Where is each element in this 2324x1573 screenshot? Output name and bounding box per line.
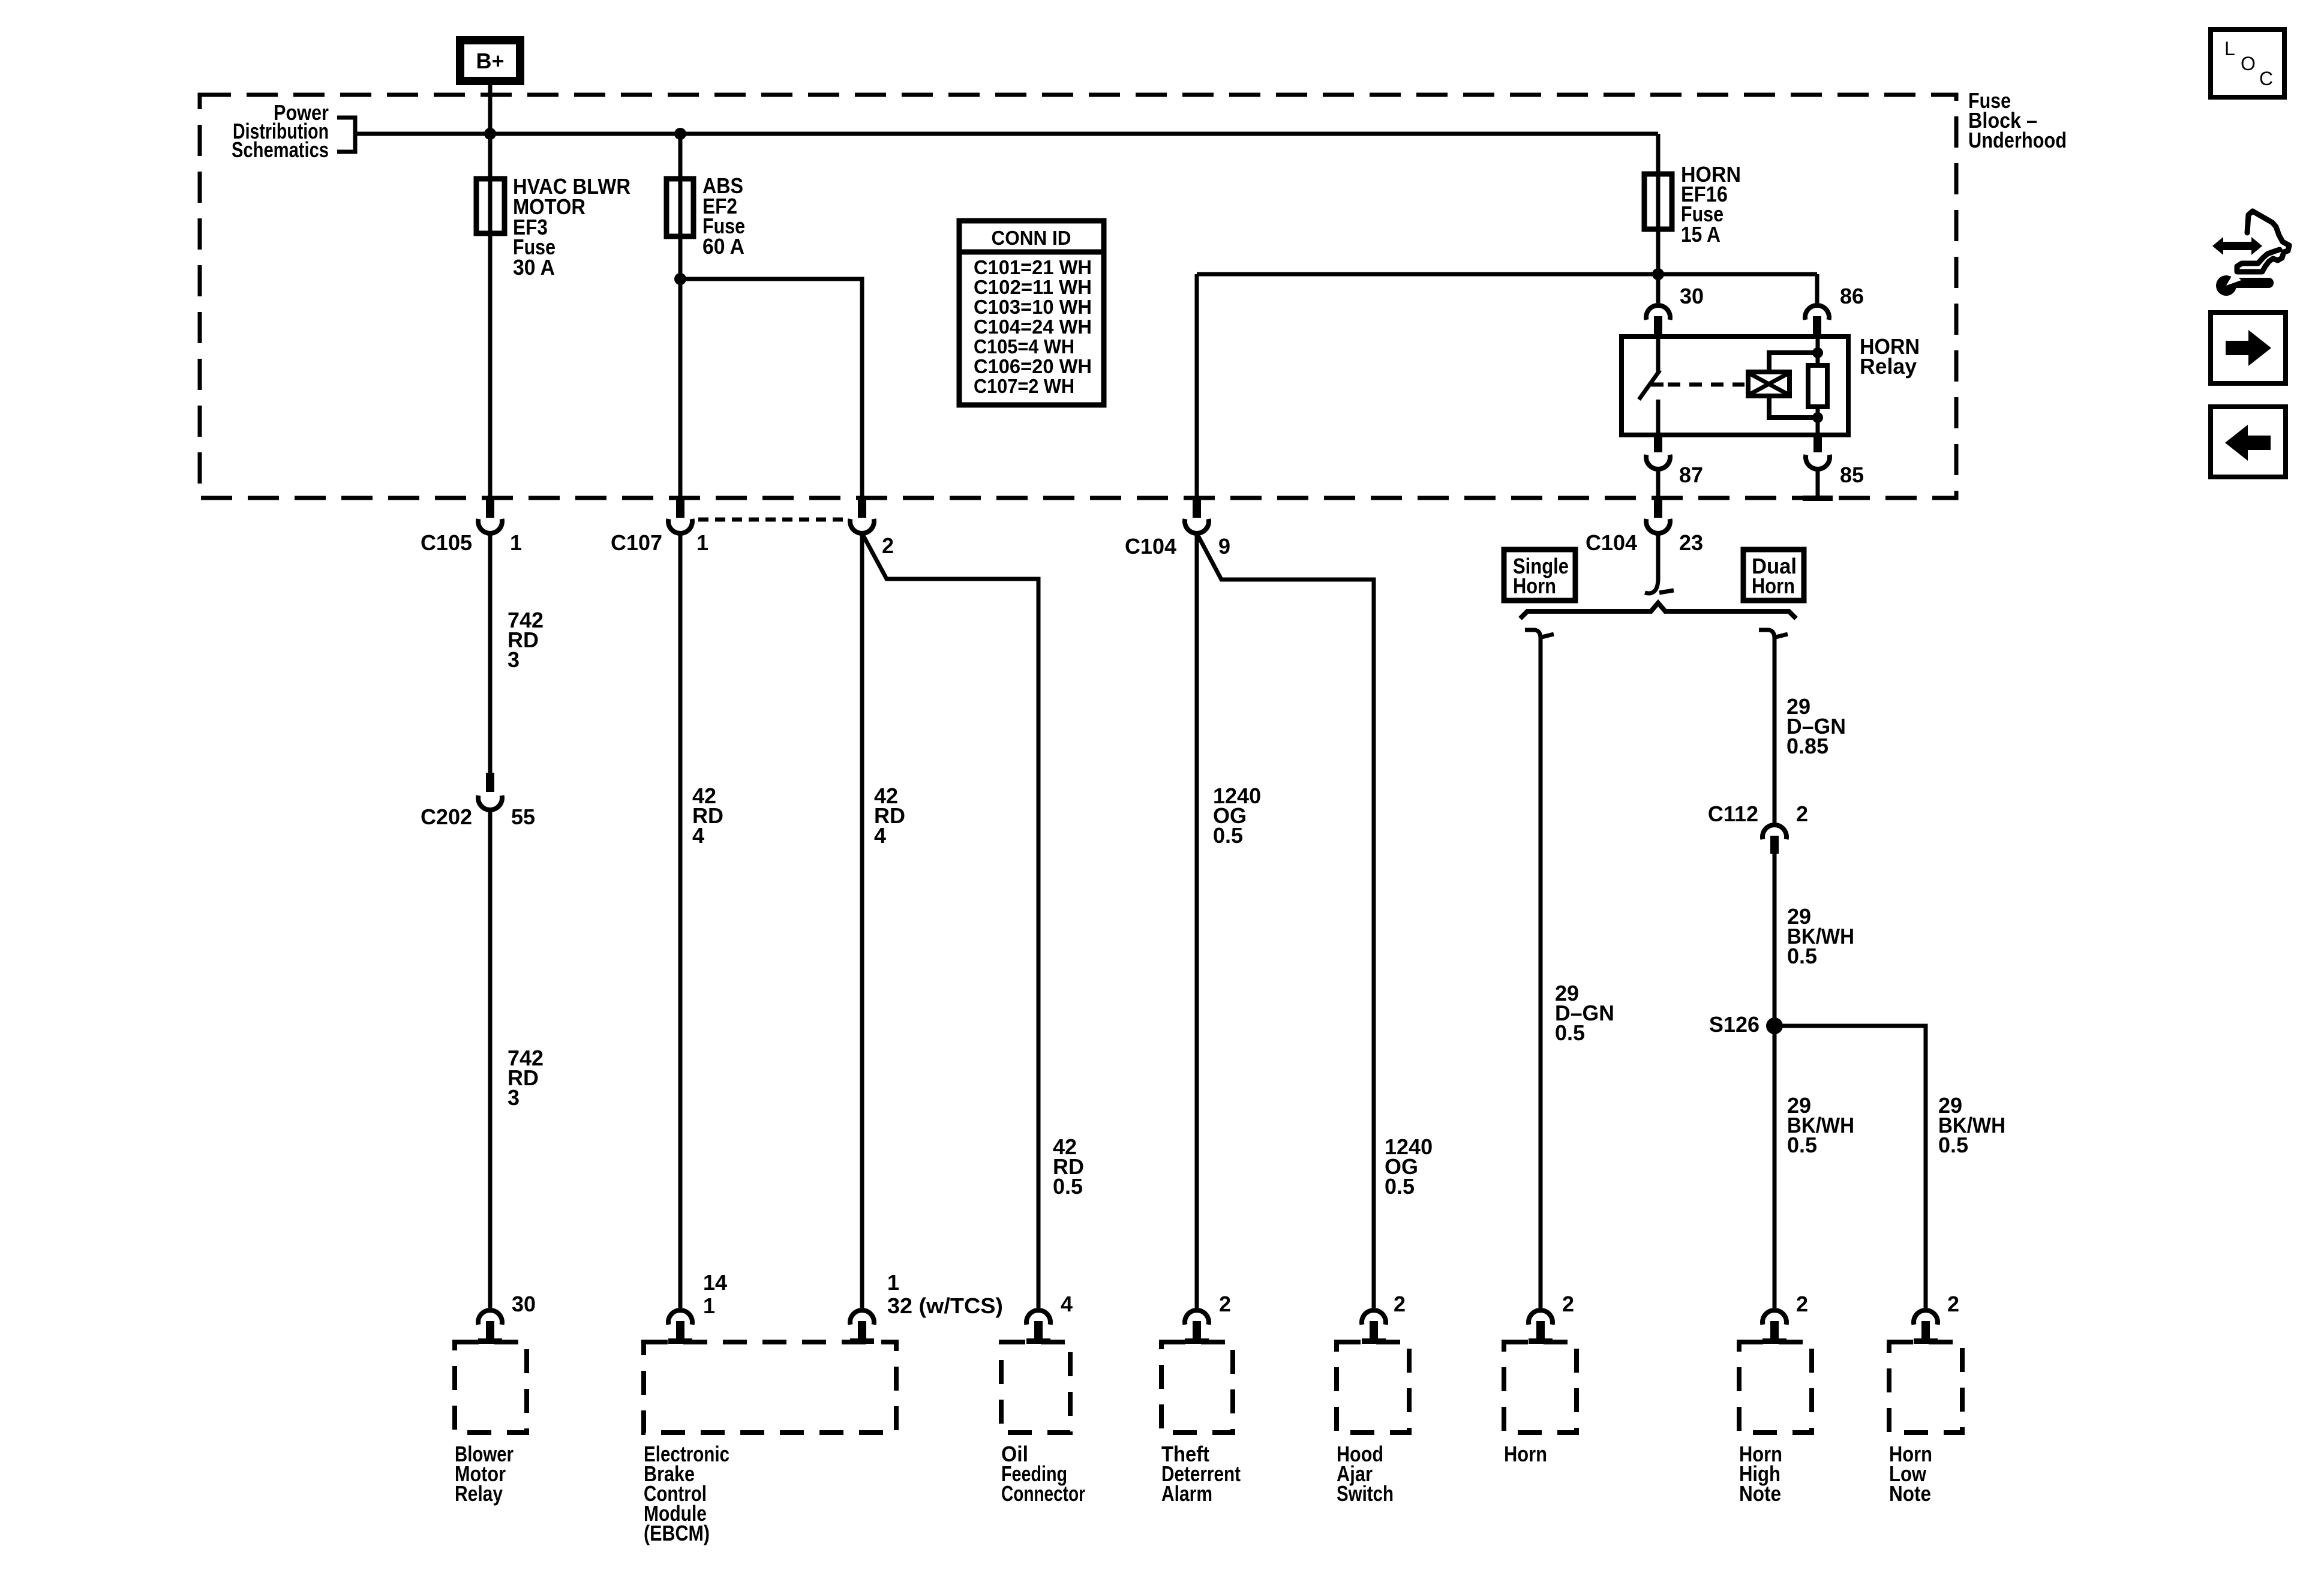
svg-text:4: 4 — [1061, 1292, 1073, 1316]
wire label 742 RD 3 — [508, 608, 544, 672]
svg-text:14: 14 — [703, 1270, 727, 1295]
wire label 29 BK/WH 0.5 — [1938, 1093, 2005, 1157]
label Theft Deterrent Alarm — [1161, 1442, 1241, 1506]
pin label 1 32 (w/TCS) — [887, 1270, 1003, 1318]
wire resistor to box bottom — [1816, 407, 1820, 435]
svg-text:(EBCM): (EBCM) — [644, 1521, 710, 1545]
wire relay pin 86 internal — [1816, 337, 1820, 365]
svg-text:0.5: 0.5 — [1213, 823, 1243, 848]
wire horizontal from C104-9 riser to relay pin 86 — [1197, 272, 1817, 277]
svg-text:4: 4 — [692, 823, 704, 848]
wire S126 branch to horn low note — [1774, 1026, 1926, 1308]
option Dual Horn box — [1743, 550, 1804, 601]
wire riser to C104 pin 9 — [1195, 274, 1199, 498]
connector at horn high note pin 2 — [1762, 1310, 1786, 1344]
svg-text:2: 2 — [1947, 1292, 1959, 1316]
connector at blower motor relay pin 30 — [478, 1310, 502, 1344]
bracket for Power Distribution Schematics — [337, 118, 355, 152]
svg-text:30: 30 — [512, 1292, 536, 1316]
svg-text:1: 1 — [696, 530, 708, 555]
svg-text:55: 55 — [511, 804, 535, 829]
label Electronic Brake Control Module (EBCM) — [644, 1442, 729, 1545]
wire C107-1 to EBCM — [678, 533, 683, 1308]
relay switch blade tick — [1650, 383, 1664, 387]
EBCM box — [644, 1342, 896, 1433]
connector C107 pin 2 — [850, 500, 874, 533]
svg-text:60 A: 60 A — [702, 234, 744, 259]
wire label 42 RD 0.5 — [1053, 1134, 1084, 1199]
svg-text:CONN ID: CONN ID — [992, 227, 1071, 249]
wire C104-23 stub below connector — [1656, 533, 1661, 581]
junction node coil top — [1812, 347, 1823, 358]
pin 85 termination foot — [1803, 496, 1833, 501]
svg-text:Relay: Relay — [1860, 354, 1917, 379]
connector at hood ajar switch pin 2 — [1362, 1310, 1386, 1344]
label Horn High Note — [1739, 1442, 1782, 1506]
svg-text:B+: B+ — [476, 49, 504, 73]
svg-text:Switch: Switch — [1337, 1481, 1394, 1506]
relay resistor — [1808, 365, 1827, 407]
junction node at ABS branch — [674, 273, 686, 285]
wire C112 to S126 — [1773, 852, 1777, 1026]
wire label 1240 OG 0.5 — [1385, 1134, 1433, 1199]
svg-text:85: 85 — [1840, 463, 1864, 487]
svg-text:3: 3 — [508, 1085, 520, 1110]
svg-text:C104: C104 — [1586, 530, 1637, 555]
wire C104-9 branch to hood ajar switch — [1197, 533, 1374, 1308]
dual horn branch hook — [1759, 630, 1788, 638]
connector C202 — [478, 773, 502, 810]
label HORN Relay — [1860, 334, 1920, 379]
label Fuse Block - Underhood — [1968, 88, 2067, 152]
wire ABS fuse column — [678, 134, 683, 498]
svg-text:2: 2 — [1796, 1292, 1808, 1316]
label Power Distribution Schematics — [232, 100, 329, 162]
wire B+ down to bus — [488, 85, 493, 134]
pin label 14 1 — [703, 1270, 727, 1318]
svg-text:2: 2 — [1394, 1292, 1406, 1316]
fuse EF16 HORN 15 A — [1644, 162, 1741, 247]
svg-text:0.5: 0.5 — [1938, 1133, 1968, 1157]
horn high note box — [1739, 1342, 1812, 1433]
svg-text:C106=20 WH: C106=20 WH — [974, 355, 1092, 377]
LOC icon box — [2211, 29, 2284, 97]
horn low note box — [1889, 1342, 1962, 1433]
svg-text:1: 1 — [703, 1293, 715, 1318]
svg-text:C101=21 WH: C101=21 WH — [974, 256, 1092, 278]
connector C107 boundary dashed line — [698, 518, 846, 522]
option Single Horn box — [1504, 550, 1575, 601]
svg-text:Schematics: Schematics — [232, 137, 329, 162]
svg-text:2: 2 — [1219, 1292, 1231, 1316]
relay pin 87 connector — [1646, 435, 1670, 469]
svg-text:2: 2 — [882, 533, 894, 558]
connector C112 — [1762, 825, 1786, 854]
svg-text:S126: S126 — [1709, 1012, 1759, 1037]
wire EF16 fuse column — [1656, 134, 1661, 303]
blower motor relay box — [455, 1342, 527, 1433]
label Oil Feeding Connector — [1001, 1442, 1085, 1506]
svg-text:Underhood: Underhood — [1968, 128, 2067, 152]
HORN relay box — [1622, 337, 1848, 435]
wire label 42 RD 4 — [692, 784, 723, 848]
wire pin 87 to fuse block edge — [1656, 470, 1661, 498]
svg-text:Note: Note — [1739, 1481, 1781, 1506]
relay pin 30 connector — [1646, 305, 1670, 337]
svg-text:C112: C112 — [1708, 801, 1758, 826]
svg-text:O: O — [2241, 53, 2256, 74]
connector C104 pin 9 — [1185, 500, 1209, 533]
power terminal B+ box — [460, 40, 520, 81]
wire branch from ABS fuse to second EBCM feed — [680, 279, 862, 498]
svg-text:C202: C202 — [421, 804, 472, 829]
fuse block underhood dashed boundary box — [200, 95, 1956, 498]
wire to C112 — [1773, 636, 1777, 822]
CONN ID table — [959, 221, 1104, 405]
connector at theft deterrent alarm pin 2 — [1185, 1310, 1209, 1344]
connector at horn pin 2 — [1529, 1310, 1553, 1344]
junction node at ABS wire and bus — [674, 128, 686, 140]
svg-text:C105: C105 — [421, 530, 472, 555]
svg-text:23: 23 — [1679, 530, 1703, 555]
svg-text:Relay: Relay — [455, 1481, 503, 1506]
svg-text:2: 2 — [1562, 1292, 1574, 1316]
wire label 29 D-GN 0.85 — [1786, 694, 1846, 758]
svg-text:86: 86 — [1840, 284, 1864, 308]
junction node at B+ wire and bus — [484, 128, 496, 140]
svg-text:C103=10 WH: C103=10 WH — [974, 296, 1092, 318]
wire coil bottom branch — [1769, 396, 1818, 418]
svg-text:2: 2 — [1796, 801, 1808, 826]
oil feeding connector box — [1001, 1342, 1070, 1433]
service wrench icon — [2216, 273, 2274, 296]
svg-text:C107: C107 — [611, 530, 662, 555]
svg-text:C107=2 WH: C107=2 WH — [974, 375, 1074, 397]
svg-text:1: 1 — [510, 530, 522, 555]
wire C104-9 to theft deterrent alarm — [1195, 533, 1199, 1308]
svg-text:32 (w/TCS): 32 (w/TCS) — [887, 1293, 1003, 1318]
svg-text:4: 4 — [874, 823, 886, 848]
wire label 29 BK/WH 0.5 — [1787, 1093, 1854, 1157]
relay pin 85 connector — [1806, 435, 1830, 469]
svg-text:87: 87 — [1679, 463, 1703, 487]
relay coil — [1748, 372, 1789, 396]
wire HVAC BLWR MOTOR fuse column — [488, 134, 493, 498]
fuse EF3 HVAC BLWR MOTOR 30 A — [476, 174, 630, 280]
connector at horn low note pin 2 — [1914, 1310, 1938, 1344]
service vehicle icon double arrow — [2212, 237, 2262, 255]
wire label 742 RD 3 — [508, 1046, 544, 1110]
connector at oil feeding connector pin 4 — [1026, 1310, 1050, 1344]
wire coil top branch — [1769, 353, 1818, 372]
hood ajar switch box — [1337, 1342, 1409, 1433]
wire C202 to blower motor relay — [488, 811, 493, 1308]
wire to horn — [1539, 636, 1543, 1308]
backward arrow icon box — [2211, 407, 2286, 477]
horn box — [1504, 1342, 1577, 1433]
service vehicle icon outline — [2237, 211, 2289, 272]
svg-text:15 A: 15 A — [1681, 222, 1721, 247]
svg-text:3: 3 — [508, 647, 520, 672]
svg-text:C104=24 WH: C104=24 WH — [974, 316, 1092, 338]
wire down to relay pin 86 — [1815, 274, 1819, 303]
label Horn Low Note — [1889, 1442, 1932, 1506]
label Blower Motor Relay — [455, 1442, 514, 1506]
svg-text:1: 1 — [887, 1270, 899, 1295]
svg-text:Alarm: Alarm — [1161, 1481, 1212, 1506]
single horn branch hook — [1525, 630, 1554, 638]
svg-text:Horn: Horn — [1504, 1442, 1547, 1466]
svg-text:0.5: 0.5 — [1053, 1174, 1083, 1199]
connector at EBCM pin 1/32 — [850, 1310, 874, 1344]
svg-text:0.85: 0.85 — [1786, 734, 1828, 758]
splice S126 — [1766, 1017, 1783, 1034]
wire pin 85 to fuse block edge — [1816, 470, 1820, 497]
option split brace — [1520, 603, 1796, 619]
wire power feed bus — [355, 132, 1658, 136]
svg-text:0.5: 0.5 — [1787, 944, 1817, 968]
wire C105 to C202 — [488, 533, 493, 773]
svg-text:Connector: Connector — [1001, 1481, 1085, 1506]
wire label 42 RD 4 — [874, 784, 905, 848]
wire S126 to horn high note — [1773, 1026, 1777, 1308]
svg-text:C105=4 WH: C105=4 WH — [974, 335, 1074, 358]
wire label 29 D-GN 0.5 — [1555, 981, 1614, 1045]
junction node below EF16 fuse — [1652, 268, 1664, 280]
connector C104 pin 23 — [1646, 500, 1670, 533]
relay switch blade — [1639, 370, 1660, 400]
forward arrow icon box — [2211, 313, 2286, 383]
svg-text:C104: C104 — [1125, 534, 1176, 559]
wire label 29 BK/WH 0.5 — [1787, 904, 1854, 968]
svg-text:9: 9 — [1218, 534, 1230, 559]
svg-text:C: C — [2259, 68, 2273, 89]
svg-text:0.5: 0.5 — [1787, 1133, 1817, 1157]
svg-text:Note: Note — [1889, 1481, 1931, 1506]
wire C107-2 branch to oil feeding connector — [862, 533, 1038, 1308]
svg-text:30: 30 — [1680, 284, 1704, 308]
svg-text:0.5: 0.5 — [1555, 1020, 1585, 1045]
svg-text:30 A: 30 A — [513, 255, 555, 280]
theft deterrent alarm box — [1161, 1342, 1233, 1433]
junction node coil bottom — [1812, 412, 1823, 423]
svg-text:L: L — [2224, 38, 2235, 59]
relay actuation dashed link — [1668, 383, 1744, 387]
svg-text:0.5: 0.5 — [1385, 1174, 1415, 1199]
svg-text:C102=11 WH: C102=11 WH — [974, 276, 1092, 298]
relay switch lower contact — [1656, 400, 1661, 435]
wire label 1240 OG 0.5 — [1213, 784, 1261, 848]
connector C107 pin 1 — [668, 500, 692, 533]
connector at EBCM pin 14/1 — [668, 1310, 692, 1344]
wire C107-2 to EBCM — [860, 533, 864, 1308]
connector C105 — [478, 500, 502, 533]
wire end hook at option split — [1645, 578, 1674, 593]
svg-text:Horn: Horn — [1752, 574, 1795, 598]
svg-text:Horn: Horn — [1513, 574, 1556, 598]
relay switch upper contact — [1656, 337, 1661, 372]
relay pin 86 connector — [1805, 305, 1829, 337]
label Hood Ajar Switch — [1337, 1442, 1394, 1506]
fuse EF2 ABS 60 A — [666, 173, 745, 259]
